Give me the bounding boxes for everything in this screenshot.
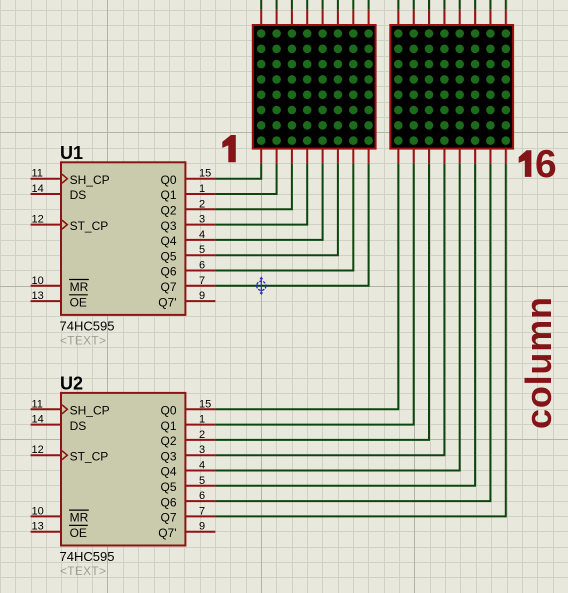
svg-text:Q6: Q6 [160, 495, 176, 509]
svg-text:10: 10 [32, 505, 44, 517]
svg-text:Q3: Q3 [160, 219, 176, 233]
svg-text:Q5: Q5 [160, 480, 176, 494]
svg-text:<TEXT>: <TEXT> [60, 564, 106, 578]
U1 pin 2 Q2 [185, 208, 215, 210]
svg-text:Q6: Q6 [160, 265, 176, 279]
U2 pin 1 Q1 [185, 424, 215, 426]
U1 pin 14 DS [31, 193, 61, 195]
wire DM2 pin row 6 to top edge [474, 0, 476, 10]
svg-text:14: 14 [32, 183, 44, 195]
svg-text:Q7': Q7' [158, 295, 176, 309]
U2 pin 14 DS [31, 424, 61, 426]
svg-text:Q2: Q2 [160, 434, 176, 448]
svg-text:6: 6 [199, 490, 205, 502]
IC U2 74HC595 body [61, 393, 185, 546]
wire U2 Q1 to DM2 column pin 2 [215, 164, 413, 425]
svg-text:U1: U1 [60, 143, 83, 163]
wire DM2 pin row 8 to top edge [505, 0, 507, 10]
svg-text:10: 10 [32, 275, 44, 287]
wire DM1 pin row 2 to top edge [276, 0, 278, 10]
svg-text:13: 13 [32, 290, 44, 302]
svg-text:Q3: Q3 [160, 449, 176, 463]
svg-text:OE: OE [70, 295, 87, 309]
LED matrix DM2 body [390, 25, 513, 149]
U1 pin 12 ST_CP [31, 224, 61, 226]
U1 pin 10 MR [31, 285, 61, 287]
svg-text:MR: MR [70, 280, 89, 294]
wire U2 Q3 to DM2 column pin 4 [215, 164, 444, 456]
wire DM2 pin row 2 to top edge [413, 0, 415, 10]
svg-text:12: 12 [32, 214, 44, 226]
svg-text:Q7: Q7 [160, 511, 176, 525]
wire U1 Q6 to DM1 column pin 7 [215, 164, 353, 271]
U1 pin 3 Q3 [185, 224, 215, 226]
svg-text:6: 6 [199, 260, 205, 272]
svg-text:SH_CP: SH_CP [70, 404, 110, 418]
LED matrix DM1 body [253, 25, 376, 149]
wire DM1 pin row 7 to top edge [352, 0, 354, 10]
U1 pin 5 Q5 [185, 254, 215, 256]
wire U2 Q0 to DM2 column pin 1 [215, 164, 398, 410]
svg-text:Q0: Q0 [160, 173, 176, 187]
U2 pin 10 MR [31, 515, 61, 517]
wire U2 Q2 to DM2 column pin 3 [215, 164, 429, 440]
U1 pin 15 Q0 [185, 178, 215, 180]
wire U2 Q7 to DM2 column pin 8 [215, 164, 505, 517]
U2 pin 3 Q3 [185, 454, 215, 456]
svg-text:15: 15 [199, 168, 211, 180]
svg-text:7: 7 [199, 275, 205, 287]
svg-text:2: 2 [199, 198, 205, 210]
U1 pin 7 Q7 [185, 285, 215, 287]
svg-text:Q4: Q4 [160, 234, 176, 248]
wire U1 Q3 to DM1 column pin 4 [215, 164, 307, 225]
svg-text:U2: U2 [60, 374, 83, 394]
svg-text:74HC595: 74HC595 [60, 549, 115, 564]
wire U2 Q5 to DM2 column pin 6 [215, 164, 475, 486]
wire DM2 pin row 7 to top edge [489, 0, 491, 10]
U2 pin 13 OE [31, 531, 61, 533]
wire U2 Q4 to DM2 column pin 5 [215, 164, 459, 471]
IC U1 74HC595 body [61, 162, 185, 315]
U2 pin 6 Q6 [185, 500, 215, 502]
wire U1 Q7 to DM1 column pin 8 [215, 164, 368, 286]
svg-text:1: 1 [199, 414, 205, 426]
wire U1 Q2 to DM1 column pin 3 [215, 164, 292, 210]
U2 pin 12 ST_CP [31, 454, 61, 456]
U1 pin 9 Q7' [185, 300, 215, 302]
U2 pin 2 Q2 [185, 439, 215, 441]
svg-text:Q1: Q1 [160, 188, 176, 202]
svg-text:Q7': Q7' [158, 526, 176, 540]
wire DM2 pin row 5 to top edge [459, 0, 461, 10]
svg-text:15: 15 [199, 398, 211, 410]
svg-text:column: column [518, 296, 559, 429]
wire DM2 pin row 3 to top edge [428, 0, 430, 10]
wire DM1 pin row 6 to top edge [337, 0, 339, 10]
wire U1 Q0 to DM1 column pin 1 [215, 164, 261, 179]
svg-text:3: 3 [199, 444, 205, 456]
DM2 top pins [398, 10, 506, 26]
svg-text:Q5: Q5 [160, 249, 176, 263]
svg-text:9: 9 [199, 521, 205, 533]
node label "16" (last column) [519, 150, 532, 177]
svg-text:9: 9 [199, 290, 205, 302]
DM2 LED dots [394, 29, 510, 145]
svg-text:Q4: Q4 [160, 465, 176, 479]
U1 pin 6 Q6 [185, 270, 215, 272]
wire U2 Q6 to DM2 column pin 7 [215, 164, 490, 502]
svg-text:14: 14 [32, 414, 44, 426]
svg-text:11: 11 [32, 398, 43, 410]
wire DM1 pin row 5 to top edge [322, 0, 324, 10]
svg-text:13: 13 [32, 521, 44, 533]
svg-text:ST_CP: ST_CP [70, 219, 109, 233]
svg-text:Q0: Q0 [160, 404, 176, 418]
origin cursor marker [257, 277, 266, 294]
wire DM2 pin row 4 to top edge [443, 0, 445, 10]
DM2 bottom pins [398, 148, 506, 164]
svg-text:ST_CP: ST_CP [70, 449, 109, 463]
wire U1 Q1 to DM1 column pin 2 [215, 164, 276, 194]
wire DM1 pin row 4 to top edge [306, 0, 308, 10]
svg-text:OE: OE [70, 526, 87, 540]
U2 pin 4 Q4 [185, 470, 215, 472]
U2 pin 5 Q5 [185, 485, 215, 487]
svg-text:12: 12 [32, 444, 44, 456]
svg-text:3: 3 [199, 214, 205, 226]
svg-text:74HC595: 74HC595 [60, 319, 115, 334]
wire DM1 pin row 8 to top edge [368, 0, 370, 10]
node label "1" (first column) [222, 135, 236, 162]
svg-text:5: 5 [199, 244, 205, 256]
svg-text:DS: DS [70, 419, 87, 433]
svg-text:SH_CP: SH_CP [70, 173, 110, 187]
svg-text:<TEXT>: <TEXT> [60, 333, 106, 347]
U1 pin 1 Q1 [185, 193, 215, 195]
svg-text:7: 7 [199, 505, 205, 517]
DM1 top pins [261, 10, 368, 26]
U1 pin 4 Q4 [185, 239, 215, 241]
wire DM2 pin row 1 to top edge [397, 0, 399, 10]
DM1 LED dots [257, 29, 373, 145]
U2 pin 15 Q0 [185, 408, 215, 410]
svg-text:4: 4 [199, 460, 205, 472]
svg-text:1: 1 [199, 183, 205, 195]
U2 pin 11 SH_CP [31, 408, 61, 410]
U2 pin 7 Q7 [185, 515, 215, 517]
wire U1 Q4 to DM1 column pin 5 [215, 164, 322, 240]
svg-text:Q2: Q2 [160, 204, 176, 218]
wire U1 Q5 to DM1 column pin 6 [215, 164, 338, 256]
svg-text:MR: MR [70, 511, 89, 525]
svg-text:Q7: Q7 [160, 280, 176, 294]
svg-text:6: 6 [535, 143, 557, 186]
wire DM1 pin row 1 to top edge [260, 0, 262, 10]
DM1 bottom pins [261, 148, 368, 164]
svg-text:Q1: Q1 [160, 419, 176, 433]
svg-text:2: 2 [199, 429, 205, 441]
svg-text:4: 4 [199, 229, 205, 241]
U1 pin 13 OE [31, 300, 61, 302]
wire DM1 pin row 3 to top edge [291, 0, 293, 10]
U2 pin 9 Q7' [185, 531, 215, 533]
U1 pin 11 SH_CP [31, 178, 61, 180]
svg-text:DS: DS [70, 188, 87, 202]
svg-text:5: 5 [199, 475, 205, 487]
svg-text:11: 11 [32, 168, 43, 180]
